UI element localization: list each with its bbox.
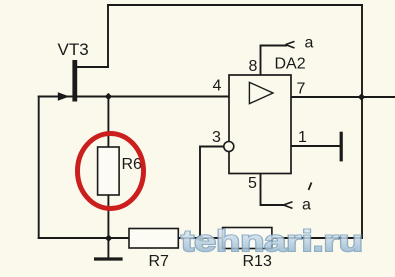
wire emitter/base row xyxy=(39,96,229,98)
wire pin 8 L xyxy=(261,46,287,76)
label a bottom xyxy=(302,197,311,214)
arrow connector top (net a) xyxy=(286,41,295,48)
label R13 xyxy=(243,253,272,270)
op-amp DA2 xyxy=(229,75,291,174)
pin number 1 xyxy=(298,129,307,146)
pin 3 inversion circle xyxy=(224,142,234,152)
wire pin 5 L xyxy=(261,174,284,206)
wire left rail xyxy=(38,97,40,239)
svg-text:R6: R6 xyxy=(122,156,143,173)
pin number 3 xyxy=(212,129,221,146)
label R6 xyxy=(122,156,143,173)
wire top rail xyxy=(108,4,362,6)
label R7 xyxy=(149,253,170,270)
pin number 8 xyxy=(249,58,258,75)
wire VT3 collector xyxy=(77,66,108,68)
svg-text:3: 3 xyxy=(212,129,221,146)
wire ground stub xyxy=(107,238,109,258)
node C junction dot R7/R13 xyxy=(196,234,203,241)
wire bottom left xyxy=(39,237,129,239)
wire R6 bottom xyxy=(107,195,109,238)
label DA2 xyxy=(275,56,306,73)
highlight red circle around R6 xyxy=(78,134,144,209)
label VT3 xyxy=(58,40,89,59)
wire right rail xyxy=(361,5,363,238)
svg-text:4: 4 xyxy=(213,78,222,95)
resistor R6 xyxy=(98,147,120,195)
wire top-left vertical drop xyxy=(107,5,109,67)
label a top xyxy=(305,35,314,52)
svg-text:5: 5 xyxy=(248,175,257,192)
pin number 7 xyxy=(297,81,306,98)
pin number 5 xyxy=(248,175,257,192)
svg-text:a: a xyxy=(305,35,314,52)
node A junction dot emitter row xyxy=(105,93,112,100)
wire pin 1 xyxy=(291,145,340,147)
transistor VT3 xyxy=(58,60,77,102)
wire pin 7 output xyxy=(291,96,395,98)
svg-text:8: 8 xyxy=(249,58,258,75)
resistor R7 xyxy=(129,229,178,249)
watermark tehnari.ru xyxy=(181,225,363,258)
terminator bar pin 1 xyxy=(340,132,343,162)
wire R7 to R13 xyxy=(178,237,222,239)
svg-text:a: a xyxy=(302,197,311,214)
wire pin 3 input xyxy=(200,147,224,238)
wire R13 to right rail xyxy=(272,237,362,239)
svg-text:tehnari.ru: tehnari.ru xyxy=(181,225,363,258)
svg-text:VT3: VT3 xyxy=(58,40,89,59)
prime tick on a xyxy=(309,183,312,191)
svg-text:DA2: DA2 xyxy=(275,56,306,73)
ground xyxy=(94,257,123,260)
resistor R13 xyxy=(223,228,272,249)
svg-text:7: 7 xyxy=(297,81,306,98)
svg-text:R7: R7 xyxy=(149,253,170,270)
wire R6 top xyxy=(107,97,109,148)
arrow connector bottom (net a') xyxy=(284,202,293,209)
pin number 4 xyxy=(213,78,222,95)
node D junction dot ground xyxy=(105,235,112,242)
svg-text:1: 1 xyxy=(298,129,307,146)
node B junction dot pin7/right rail xyxy=(358,93,365,100)
